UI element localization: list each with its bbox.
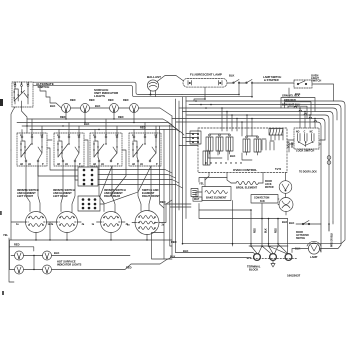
svg-text:RED: RED — [14, 243, 20, 247]
wire lamp to verticals — [320, 222, 333, 252]
svg-text:YEL: YEL — [3, 233, 8, 237]
infinite switch SW1 dashed box — [17, 133, 47, 166]
wire label stack lead top — [288, 88, 290, 98]
wire bundle row R4 — [183, 112, 334, 223]
wire lock switch right — [319, 140, 325, 144]
wire motor leads — [278, 173, 286, 216]
wire bake leads — [196, 173, 209, 198]
lock switch dashed box — [294, 128, 319, 149]
svg-text:YEL: YEL — [199, 182, 204, 186]
connector P1 block — [78, 167, 98, 186]
wire board left entries — [179, 134, 198, 146]
svg-text:BLK: BLK — [170, 255, 175, 259]
svg-text:BLK: BLK — [289, 221, 294, 225]
wire pair from alternate switch to ballast — [33, 82, 149, 94]
infinite switch SW2 dashed box — [54, 133, 84, 166]
svg-text:& STARTER: & STARTER — [264, 78, 279, 82]
wire vertical x232.5 — [232, 201, 234, 247]
wire connector P1 to center bundle rows — [98, 170, 183, 189]
svg-text:DOOR: DOOR — [296, 232, 303, 234]
wire drops rows right cluster — [300, 108, 315, 128]
label INFINITE SWITCH AND ELEMENT LEFT REAR — [53, 188, 75, 198]
ground arrow at terminal N — [271, 260, 275, 267]
svg-text:MOTOR: MOTOR — [265, 187, 274, 189]
relay K1 — [206, 134, 213, 154]
svg-text:RED: RED — [108, 98, 114, 102]
svg-text:P: P — [156, 164, 158, 166]
wire E1 bottom bus RED — [10, 240, 173, 247]
svg-text:2a: 2a — [51, 224, 54, 226]
wire SW1 to P1 — [38, 140, 78, 176]
wire PL2 to PL3 — [90, 107, 110, 109]
wire lower of pair — [33, 85, 144, 96]
svg-text:RED: RED — [60, 115, 66, 119]
vertical label DOOR C13 — [289, 141, 295, 148]
wire bus row over switches A — [27, 119, 172, 125]
terminal block lug L2 — [285, 254, 292, 261]
scan mark left edge bottom dot — [2, 291, 4, 295]
wire starter to oven light switch — [258, 82, 294, 84]
wire PL4 drop to bus — [133, 113, 135, 123]
svg-text:H2: H2 — [57, 164, 61, 166]
wire SW2 to P1 — [75, 140, 88, 180]
wire element drops to bus — [36, 233, 147, 241]
wire PL3 drop to bus — [113, 113, 115, 120]
scan mark left edge top — [0, 99, 3, 106]
wire drops rows to control board — [222, 108, 252, 136]
wire lamp bus rows extend — [182, 95, 252, 97]
label CONVECTION FAN box — [251, 195, 278, 204]
svg-text:LEFT FRONT: LEFT FRONT — [17, 194, 34, 198]
hot surface indicator light PL8 — [43, 265, 52, 274]
wire E4 right lead up — [163, 200, 173, 223]
wire hop arcs on rows — [294, 107, 317, 122]
vertical label RED near x276 — [276, 228, 278, 233]
wire mid vertical between rows — [33, 256, 35, 270]
wire bundle to meat probe — [164, 204, 191, 207]
wire E2 lead down — [50, 222, 81, 240]
svg-text:FAN: FAN — [260, 200, 265, 203]
wire bus row over switches B — [17, 123, 176, 130]
svg-text:BLK: BLK — [282, 220, 287, 224]
svg-text:BLOCK: BLOCK — [249, 268, 258, 272]
wire SW4 to P2 — [100, 166, 151, 204]
label DOOR ACTIVATED SWITCH — [296, 232, 309, 240]
wire bundle row R3 — [179, 108, 337, 120]
terminal block lug N — [270, 254, 277, 261]
wire PL6 right — [52, 255, 131, 257]
svg-text:BAKE ELEMENT: BAKE ELEMENT — [206, 196, 227, 200]
svg-text:RED: RED — [276, 228, 278, 233]
relay K5 — [254, 136, 261, 155]
wire bundle row R7 — [176, 122, 321, 252]
svg-text:16022637: 16022637 — [287, 274, 301, 278]
svg-text:WHT: WHT — [194, 199, 200, 201]
junction dot door wire — [328, 223, 330, 225]
svg-text:SWITCH: SWITCH — [296, 238, 305, 240]
svg-text:LEFT REAR: LEFT REAR — [53, 194, 68, 198]
svg-text:BLK: BLK — [266, 228, 268, 233]
svg-text:RED: RED — [89, 98, 95, 102]
svg-text:NO: NO — [296, 132, 300, 134]
relay K3 — [226, 134, 233, 154]
svg-text:BALLAST: BALLAST — [147, 75, 161, 79]
center vertical bundle wire 5 — [185, 97, 187, 219]
svg-text:2a: 2a — [82, 224, 85, 226]
wire starter drops to bus — [239, 84, 252, 97]
lamp starter switch S6 — [227, 80, 258, 84]
svg-text:LIGHTS: LIGHTS — [94, 94, 105, 98]
label INFINITE SWITCH AND ELEMENT LEFT FRONT — [17, 188, 39, 198]
wire PL4 right into bundle — [139, 108, 173, 116]
board striped block — [203, 151, 210, 165]
svg-text:GRN-YEL BLK: GRN-YEL BLK — [282, 94, 300, 98]
wire lamp left — [292, 249, 308, 253]
svg-text:FLUORESCENT LAMP: FLUORESCENT LAMP — [190, 73, 222, 77]
label SWITCH AND ELEMENT RIGHT FRONT — [142, 188, 160, 198]
svg-text:BLK: BLK — [229, 74, 234, 78]
wire staple loop inner — [285, 102, 312, 115]
wire lower bus BLK — [172, 257, 251, 259]
board internal bars — [262, 139, 274, 150]
scan mark left edge mid tick — [0, 211, 2, 215]
junction dots lamp bus — [150, 94, 253, 98]
svg-text:SWITCH: SWITCH — [311, 79, 321, 83]
oven lamp DS2 — [307, 241, 321, 254]
center vertical bundle wire 2 — [175, 99, 177, 253]
center vertical bundle wire 1 — [171, 116, 173, 257]
center vertical bundle wire 8 — [160, 126, 165, 208]
wire vertical drops to terminal row — [251, 214, 288, 254]
wire tube drop to bus — [194, 87, 205, 101]
wire PL7 to PL8 — [24, 269, 43, 271]
svg-text:P: P — [117, 164, 119, 166]
alternate switch SW5 dashed box — [12, 82, 33, 107]
inline connector bullets right — [327, 156, 331, 165]
svg-text:T1/T2: T1/T2 — [275, 169, 282, 171]
relay K2 — [216, 134, 223, 154]
convection fan motor B2 — [279, 198, 293, 212]
wire bus row over switches C — [22, 126, 180, 132]
label WHT bake boxed — [193, 197, 202, 201]
wire PL1 drop to bus — [65, 113, 67, 120]
wire staple loop outer — [281, 98, 315, 112]
svg-text:RED: RED — [123, 98, 129, 102]
svg-text:BLK: BLK — [50, 104, 55, 108]
infinite switch SW4 dashed box — [129, 133, 161, 166]
wire bundle row R2 — [189, 105, 341, 249]
wire SW3 to P2 — [100, 150, 126, 196]
svg-text:BROIL ELEMENT: BROIL ELEMENT — [236, 186, 258, 190]
surface element E3 right rear — [92, 212, 129, 233]
hot surface indicator light PL5 — [15, 251, 24, 260]
hot surface indicator light PL6 — [43, 251, 52, 260]
svg-text:BLK: BLK — [95, 104, 100, 108]
indicator light PL3 — [110, 104, 119, 113]
label LAMP SWITCH & STARTER — [263, 75, 281, 82]
junction dots bundle rows mid — [221, 107, 316, 123]
svg-text:P: P — [42, 164, 44, 166]
hot surface indicator light PL7 — [15, 265, 24, 274]
wire alt box left drop — [11, 107, 15, 150]
wire bus row 246.5 — [10, 247, 34, 251]
label OVEN LIGHT SWITCH — [311, 74, 321, 83]
indicator light PL4 — [130, 104, 139, 113]
wire left column verticals — [10, 247, 15, 270]
wire SW2 drops to element E2 — [61, 162, 75, 212]
junction dots rows — [33, 255, 34, 270]
left edge vertical run — [9, 238, 14, 282]
svg-text:RED: RED — [70, 98, 76, 102]
svg-text:RED: RED — [255, 228, 257, 233]
fluorescent lamp tube DS1 — [183, 79, 227, 88]
wire bottom center run A — [199, 204, 251, 215]
svg-text:OVEN CONTROL: OVEN CONTROL — [233, 168, 257, 172]
wire loop connect — [164, 258, 172, 260]
junction dots bottom bus — [35, 239, 147, 240]
junction dots bottom center — [250, 209, 279, 219]
relay link bar — [210, 134, 258, 136]
label ALTERNATE SWITCH — [36, 82, 54, 89]
ballast T3 — [147, 75, 161, 97]
svg-text:RED: RED — [118, 115, 124, 119]
svg-text:P: P — [79, 164, 81, 166]
door lock motor B1 — [279, 181, 292, 194]
wire ballast to fluorescent tube — [157, 76, 183, 82]
bake element R1 box — [202, 187, 231, 201]
indicator light PL2 — [81, 104, 90, 113]
terminal block dashed rail — [247, 258, 297, 260]
connector P2 block — [78, 196, 100, 211]
wire broil leads — [227, 173, 263, 184]
junction dots mid bus — [182, 243, 279, 245]
junction dots above lugs — [250, 245, 279, 247]
center vertical bundle wire 3 — [178, 101, 180, 210]
terminal block lug L1 — [254, 254, 261, 261]
meat probe receptacle — [191, 189, 198, 197]
svg-text:LOCK SWITCH: LOCK SWITCH — [296, 149, 314, 153]
svg-text:PRS OR BLK: PRS OR BLK — [332, 232, 334, 247]
svg-text:TO DOOR LOCK: TO DOOR LOCK — [299, 172, 317, 174]
wire SW tops to bus — [22, 119, 156, 136]
wire PL2 drop to bus — [84, 113, 86, 123]
wire PL1 to PL2 — [71, 107, 81, 109]
svg-text:CONVECTION: CONVECTION — [254, 197, 270, 199]
junction dots rows left cluster — [195, 98, 212, 109]
vertical label RED near x253 — [255, 228, 257, 233]
wire oven light switch to right vertical — [312, 84, 334, 101]
label HOT SURFACE INDICATOR LIGHTS — [57, 260, 82, 267]
wire staple loop inner2 — [288, 106, 307, 118]
board terminal strip hatched — [269, 129, 283, 141]
board left connector grid — [190, 131, 201, 144]
oven control board dashed box — [198, 128, 287, 173]
wire alt switch top stubs — [15, 82, 28, 84]
wire lock switch to board — [287, 140, 294, 152]
label INFINITE SWITCH AND ELEMENT RIGHT REAR — [104, 188, 126, 198]
svg-text:H2: H2 — [20, 164, 24, 166]
svg-text:LAMP: LAMP — [310, 255, 318, 259]
wire PL5 to PL6 — [24, 255, 43, 257]
svg-text:RED: RED — [171, 240, 177, 244]
svg-text:RED: RED — [160, 200, 166, 204]
bake element R1 coil — [205, 190, 227, 193]
center vertical bundle wire 6 — [170, 125, 172, 246]
surface element E1 left front — [16, 212, 54, 233]
wire alternate switch drop to switch 1 — [22, 107, 28, 133]
wire E1 left lead to left vertical — [11, 150, 21, 240]
label SURFACE UNIT INDICATOR LIGHTS — [94, 88, 119, 98]
vertical label BLK near x266 — [266, 228, 268, 233]
svg-text:BRN RED: BRN RED — [284, 98, 296, 102]
surface element E2 left rear — [48, 212, 85, 233]
wire vertical x262 — [261, 204, 263, 219]
wire SW3 drops to element E3 — [99, 162, 115, 213]
wire bundle row R6 — [172, 119, 325, 141]
svg-text:1a: 1a — [127, 224, 130, 226]
center vertical bundle wire 7 — [163, 130, 165, 233]
oven light switch S5 dashed box — [294, 80, 312, 88]
wire bake YEL lead run — [199, 178, 227, 183]
surface element E4 right front dual — [127, 211, 165, 235]
wire PL8 right staircase — [52, 257, 173, 270]
wire board internals — [208, 150, 252, 160]
svg-text:INDICATOR LIGHTS: INDICATOR LIGHTS — [57, 263, 82, 267]
label DOOR LOCK MOTOR — [265, 181, 274, 189]
wire bundle row R1 — [186, 101, 345, 244]
junction dots on bus — [26, 118, 134, 130]
svg-text:LOCK: LOCK — [265, 184, 272, 186]
wire fan-in diagonals to lugs — [251, 244, 288, 254]
label TERMINAL BLOCK — [247, 265, 261, 272]
vertical label PRS OR BLK — [332, 232, 334, 247]
wire bundle row R5 — [186, 115, 329, 231]
indicator light PL1 — [62, 104, 71, 113]
svg-text:DOOR: DOOR — [265, 181, 272, 183]
wire bus row over switches D — [30, 130, 184, 136]
wire PL3 to PL4 — [119, 107, 130, 109]
svg-text:ACTIVATED: ACTIVATED — [296, 234, 309, 237]
door activated switch S7 — [302, 221, 310, 225]
wire bottom center run B — [199, 210, 288, 219]
infinite switch SW3 dashed box — [90, 133, 122, 166]
wire SW4 drops to element E4 — [138, 162, 151, 211]
svg-text:BLK: BLK — [230, 154, 235, 158]
broil element R2 coil — [231, 181, 263, 184]
wire SW1 drops to element E1 — [26, 162, 40, 212]
wire loop rect bottom left of center — [152, 233, 165, 260]
relay K4 — [243, 136, 250, 155]
svg-text:1a: 1a — [16, 224, 19, 226]
center vertical bundle wire 4 — [182, 97, 184, 244]
wire lug feed rail — [249, 245, 288, 247]
wire ballast bottom bus rows — [144, 95, 186, 97]
svg-text:1a: 1a — [92, 224, 95, 226]
board internal pin row — [205, 162, 241, 163]
wire mid bus BLK to terminal — [176, 252, 254, 254]
wire staircase from pair down to PL1 — [40, 85, 62, 108]
svg-text:BLK: BLK — [54, 251, 59, 255]
wire door switch run — [296, 223, 321, 225]
wire mid bus RED to terminal — [183, 243, 336, 245]
